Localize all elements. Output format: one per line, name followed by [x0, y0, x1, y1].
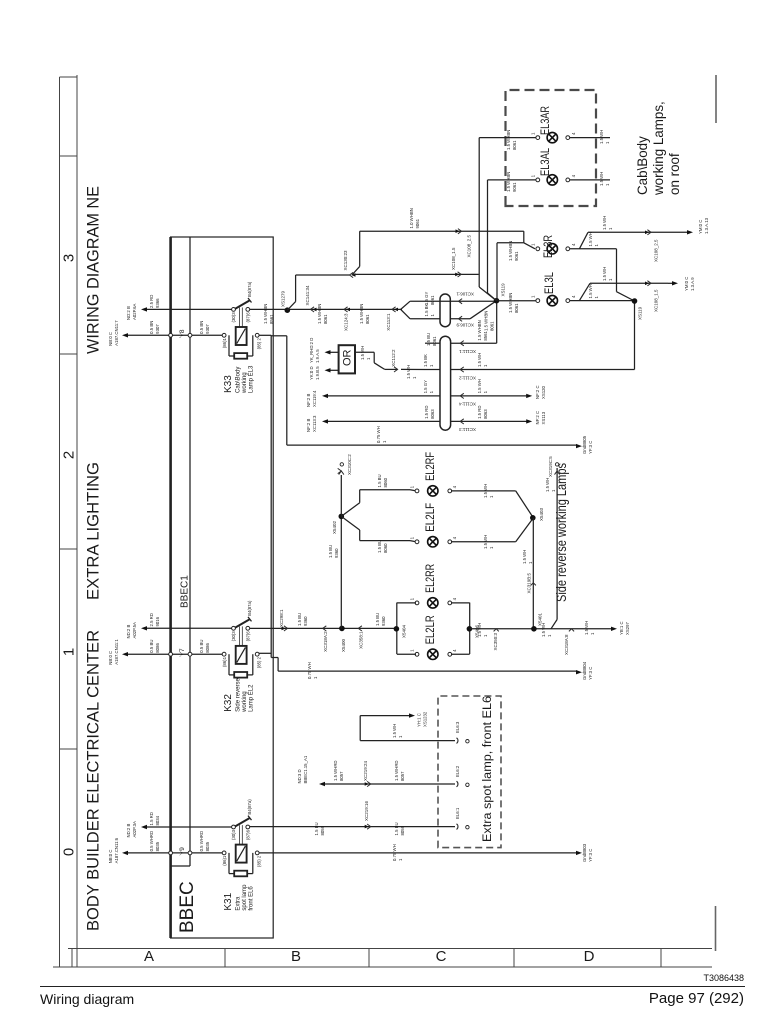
branch from XS1279 to XC130:23 and EL3AR feed: [287, 302, 295, 311]
svg-text:(86)1: (86)1: [222, 337, 227, 348]
svg-text:XC108_1.5: XC108_1.5: [451, 247, 456, 270]
svg-text:working Lamps,: working Lamps,: [651, 101, 666, 196]
svg-text:8061: 8061: [365, 314, 370, 324]
svg-text:4: 4: [571, 243, 576, 246]
svg-text:XC111:1: XC111:1: [459, 349, 476, 354]
EL3AR lamp circuit: [479, 137, 536, 139]
X5402 branch to EL2LF pin1: [341, 516, 359, 530]
svg-text:9360: 9360: [334, 548, 339, 558]
svg-text:YF:3 C: YF:3 C: [588, 441, 593, 454]
svg-text:9: 9: [179, 847, 186, 851]
svg-text:(85) 2: (85) 2: [257, 855, 262, 867]
svg-text:8061: 8061: [489, 321, 494, 331]
svg-text:OR: OR: [342, 349, 354, 366]
wire 0.75 WH to GndB804: [278, 670, 576, 672]
K31 pin85 wire 0.75 WH to GndB803: [259, 852, 576, 854]
svg-text:EL3AR: EL3AR: [538, 106, 552, 135]
splice X5406: [467, 626, 473, 632]
svg-text:1.5 WHRD: 1.5 WHRD: [333, 760, 338, 781]
relay K31 coil box: [236, 845, 247, 863]
svg-text:1.5 RD: 1.5 RD: [477, 406, 482, 419]
svg-text:8057: 8057: [339, 771, 344, 781]
svg-text:EL3L: EL3L: [542, 272, 556, 294]
svg-text:1: 1: [430, 314, 435, 317]
svg-text:Side reverse working Lamps: Side reverse working Lamps: [554, 463, 569, 602]
svg-text:NF:2 B: NF:2 B: [306, 418, 311, 432]
svg-text:1: 1: [398, 735, 403, 738]
svg-text:1.3.A.13: 1.3.A.13: [704, 217, 709, 234]
svg-text:XC108_1.5: XC108_1.5: [654, 289, 659, 312]
svg-text:XS1279: XS1279: [281, 290, 286, 307]
OR output to XC112:2: [355, 351, 374, 353]
svg-text:1: 1: [483, 364, 488, 367]
svg-text:1.5 BK: 1.5 BK: [424, 303, 429, 316]
svg-text:EL6:2: EL6:2: [455, 765, 460, 777]
svg-text:A187.CN11:1: A187.CN11:1: [114, 639, 119, 665]
svg-text:XC106:1: XC106:1: [456, 292, 474, 297]
svg-text:1.5 WH: 1.5 WH: [483, 484, 488, 498]
relay K32 switch contact 30-87a-87: [232, 626, 236, 630]
sheet frame: row-letter strip (left): [53, 966, 712, 968]
svg-text:B4(87a): B4(87a): [247, 600, 252, 616]
svg-text:1: 1: [410, 649, 415, 652]
svg-text:1.5 BU: 1.5 BU: [375, 613, 380, 626]
svg-text:8060: 8060: [383, 543, 388, 553]
svg-text:8057: 8057: [400, 771, 405, 781]
X5402 branch to EL2RF pin1: [341, 503, 359, 517]
svg-text:NB:0 C: NB:0 C: [108, 651, 113, 665]
svg-text:8061: 8061: [512, 140, 517, 150]
wire 1.5 WHRD 8057 with arrow ND:3 D BBEC1.15_A1 to EL6:2: [322, 783, 455, 785]
svg-text:EL2LR: EL2LR: [423, 615, 437, 644]
relay K31 pin (86)1: [222, 851, 226, 855]
svg-text:YK_RHD:2 D: YK_RHD:2 D: [309, 338, 314, 363]
doc number T3086438: [703, 973, 744, 983]
svg-text:WIRING DIAGRAM NE: WIRING DIAGRAM NE: [84, 186, 103, 354]
relay K33 switch contact 30-87a-87: [232, 308, 236, 312]
svg-text:1.5 WHBN: 1.5 WHBN: [508, 241, 513, 261]
svg-text:1.5 WHBN: 1.5 WHBN: [263, 304, 268, 324]
svg-text:8561: 8561: [483, 330, 488, 340]
svg-text:1.5 WH: 1.5 WH: [599, 130, 604, 144]
svg-text:0.5 BN: 0.5 BN: [199, 321, 204, 334]
svg-text:1: 1: [398, 858, 403, 861]
svg-text:YM:0 C: YM:0 C: [684, 277, 689, 291]
svg-text:EL2RR: EL2RR: [423, 564, 437, 593]
svg-text:C: C: [436, 948, 447, 965]
svg-text:Cab\Body: Cab\Body: [635, 136, 650, 195]
svg-text:1: 1: [605, 141, 610, 144]
svg-text:1.5 WH: 1.5 WH: [406, 365, 411, 379]
svg-text:EL3AL: EL3AL: [538, 148, 552, 176]
svg-text:9360: 9360: [381, 616, 386, 626]
svg-text:XC112:2: XC112:2: [391, 349, 396, 367]
svg-text:NB:0 C: NB:0 C: [108, 850, 113, 864]
svg-text:8059: 8059: [320, 825, 325, 835]
svg-text:4: 4: [571, 132, 576, 135]
OR logic box: [339, 345, 355, 373]
wire w4 1.5 RD 8063 through XC111:3 (NF:2B XC113:3 to NF:2C XS113): [325, 420, 440, 422]
svg-text:EL2RF: EL2RF: [423, 452, 437, 481]
svg-text:9061: 9061: [512, 182, 517, 192]
EL6:2 bullet terminal: [457, 781, 458, 787]
splice XS1279: [285, 307, 291, 313]
svg-text:8061: 8061: [432, 336, 437, 346]
svg-text:XC141:34: XC141:34: [305, 285, 310, 306]
svg-text:1.5 WH: 1.5 WH: [545, 478, 550, 492]
svg-text:Lamp EL2: Lamp EL2: [248, 684, 254, 712]
connector capsule XC106:1/XC106:9: [440, 294, 450, 327]
svg-text:Side reverse: Side reverse: [236, 678, 242, 712]
svg-text:1.5 WH: 1.5 WH: [392, 724, 397, 738]
svg-text:1.5 WHBN: 1.5 WHBN: [506, 130, 511, 150]
relay K33 pin (86)1: [222, 333, 226, 337]
connector XC113:1: [392, 307, 396, 312]
svg-text:1.5 WH: 1.5 WH: [602, 267, 607, 281]
svg-text:X5400: X5400: [341, 639, 346, 653]
svg-text:EL6:1: EL6:1: [455, 807, 460, 819]
svg-text:9061: 9061: [415, 218, 420, 228]
svg-text:0: 0: [61, 848, 78, 856]
svg-text:B: B: [291, 948, 301, 965]
svg-text:1.5 BU: 1.5 BU: [377, 474, 382, 487]
svg-text:(85) 2: (85) 2: [257, 656, 262, 668]
svg-text:0.5 BN: 0.5 BN: [149, 321, 154, 334]
relay K32 resistor loop: [228, 654, 230, 675]
svg-text:A02P.3A: A02P.3A: [132, 821, 137, 838]
svg-text:1.5 WH: 1.5 WH: [483, 535, 488, 549]
splice X5404: [394, 626, 400, 632]
BBEC terminal circles + pin 9 of BBEC1: [169, 851, 173, 855]
svg-text:2.5 RD: 2.5 RD: [149, 295, 154, 308]
svg-text:K32: K32: [223, 694, 234, 712]
svg-text:A02P.6A: A02P.6A: [132, 303, 137, 320]
svg-text:XC319B:5: XC319B:5: [527, 573, 532, 594]
svg-text:1.5 BU: 1.5 BU: [297, 613, 302, 626]
splice X5403: [530, 515, 536, 521]
svg-text:8061: 8061: [514, 303, 519, 313]
splice XS119 (right): [632, 298, 638, 304]
wire w2 to splice XS119 right: [634, 301, 636, 370]
svg-text:X5402: X5402: [332, 521, 337, 535]
svg-text:XC318A:8: XC318A:8: [564, 634, 569, 655]
svg-text:XC108_2.5: XC108_2.5: [654, 239, 659, 262]
svg-text:8059: 8059: [400, 825, 405, 835]
svg-text:1.5 WHBN: 1.5 WHBN: [477, 320, 482, 340]
svg-text:0.5 BU: 0.5 BU: [149, 640, 154, 653]
EL2RR/EL2LR parallel ring: [396, 603, 398, 654]
svg-text:1.5 WHBN: 1.5 WHBN: [506, 172, 511, 192]
svg-text:8035: 8035: [155, 841, 160, 851]
dashed enclosure: Extra spot lamp, front EL6: [438, 696, 501, 848]
svg-text:1.5 BU: 1.5 BU: [426, 333, 431, 346]
svg-text:1.5 WHBN: 1.5 WHBN: [484, 311, 489, 331]
svg-text:1.5 WH: 1.5 WH: [599, 172, 604, 186]
K33 output trunk 1.5 WHBN 8561: [250, 308, 403, 310]
relay K33 resistor loop: [228, 335, 230, 356]
svg-text:(87)6: (87)6: [246, 312, 251, 323]
svg-text:XS113: XS113: [541, 411, 546, 424]
svg-text:1: 1: [531, 174, 536, 177]
EL3R return into XS119 right: [570, 248, 617, 250]
svg-text:XC358:1: XC358:1: [359, 631, 364, 649]
svg-text:NF:2 C: NF:2 C: [535, 411, 540, 425]
svg-text:A02P.5A: A02P.5A: [132, 622, 137, 639]
svg-text:XC219:24: XC219:24: [363, 760, 368, 781]
svg-text:XC113:1: XC113:1: [386, 313, 391, 331]
OR input wire from YK:0 D 1.9.B.5: [327, 369, 339, 371]
svg-text:(86)1: (86)1: [222, 855, 227, 866]
connector capsule XC111:1/2/4/3: [440, 336, 451, 430]
svg-text:0.75 WH: 0.75 WH: [392, 844, 397, 861]
svg-text:Cab\Body: Cab\Body: [236, 367, 242, 393]
svg-text:7: 7: [179, 648, 186, 652]
EL3L lamp circuit: [497, 300, 537, 302]
svg-text:9366: 9366: [155, 298, 160, 308]
svg-text:1: 1: [61, 648, 78, 656]
svg-text:XC111:2: XC111:2: [459, 375, 476, 380]
coil ground rail from K32/K33 pin85 to GndB804: [259, 652, 272, 654]
svg-text:1.5 BK: 1.5 BK: [423, 354, 428, 367]
svg-text:8063: 8063: [483, 409, 488, 419]
relay K33 pin (85)2: [255, 333, 259, 337]
feed wires to roof lamps EL3AL/EL3AR: [478, 138, 480, 287]
svg-text:NB:0 C: NB:0 C: [108, 332, 113, 346]
svg-text:front EL6: front EL6: [248, 886, 254, 911]
svg-text:1: 1: [313, 676, 318, 679]
footer rule: [40, 986, 745, 987]
relay K31 coil-feed wire (pin 9): [125, 852, 224, 854]
svg-text:Extra: Extra: [236, 896, 242, 911]
svg-text:1.5 RD: 1.5 RD: [424, 406, 429, 419]
relay K31 switch wire with supply arrow: [144, 826, 234, 828]
relay K32 pin (85)2: [255, 652, 259, 656]
svg-text:3: 3: [61, 254, 78, 262]
svg-text:EL3R: EL3R: [541, 235, 555, 258]
svg-text:YM:0 C: YM:0 C: [698, 220, 703, 234]
svg-text:BBEC1: BBEC1: [180, 575, 191, 608]
BBEC electrical-center box: [171, 237, 274, 938]
svg-text:ND:3 D: ND:3 D: [297, 769, 302, 783]
svg-text:XC111:3: XC111:3: [459, 427, 476, 432]
svg-text:XC350:3: XC350:3: [493, 633, 498, 651]
svg-text:2.5 RD: 2.5 RD: [149, 613, 154, 626]
svg-text:0.75 WH: 0.75 WH: [376, 426, 381, 443]
bus to lamp feeds: X5400 to X5402 and XC310C:2: [340, 516, 342, 628]
relay K32 link to switch: [238, 626, 240, 646]
svg-text:1: 1: [608, 227, 613, 230]
svg-text:XC108_2.5: XC108_2.5: [467, 235, 472, 258]
connector XC141:34: [311, 307, 315, 312]
svg-text:on roof: on roof: [667, 153, 682, 195]
splice X5400: [339, 626, 345, 632]
svg-text:0.75 WH: 0.75 WH: [307, 662, 312, 679]
svg-text:9307: 9307: [155, 324, 160, 334]
svg-text:XS119: XS119: [501, 283, 506, 297]
svg-text:1: 1: [366, 357, 371, 360]
svg-text:1.5 WHBN: 1.5 WHBN: [508, 293, 513, 313]
svg-text:XC319C:5: XC319C:5: [548, 456, 553, 477]
svg-text:1.5 WH: 1.5 WH: [602, 216, 607, 230]
lamp EL2RF: [415, 489, 419, 493]
svg-text:B4(87a): B4(87a): [247, 281, 252, 297]
svg-text:BBEC: BBEC: [177, 881, 198, 933]
svg-text:1: 1: [590, 632, 595, 635]
svg-text:A187.CN11:6: A187.CN11:6: [114, 837, 119, 863]
wire L from XC130:23 down to roof-lamp feed: [352, 273, 479, 275]
svg-text:NF:2 B: NF:2 B: [306, 393, 311, 407]
svg-text:GndB803: GndB803: [582, 843, 587, 862]
svg-text:X5403: X5403: [539, 507, 544, 521]
footer text Wiring diagram: [40, 991, 134, 1007]
svg-text:1.5 WH: 1.5 WH: [584, 621, 589, 635]
relay K31 link to switch: [238, 825, 240, 845]
svg-text:A187.CN11:7: A187.CN11:7: [114, 320, 119, 346]
svg-text:XC298:1: XC298:1: [279, 609, 284, 627]
EL3R lamp circuit: [496, 243, 498, 301]
svg-text:(85) 2: (85) 2: [257, 337, 262, 349]
relay K31 resistor loop: [228, 853, 230, 874]
trunk fork at Y=400.7: [401, 301, 410, 309]
EL6:1 bullet terminal: [457, 824, 458, 830]
svg-text:EL6:3: EL6:3: [455, 721, 460, 733]
svg-text:1.5 WH: 1.5 WH: [477, 623, 482, 637]
svg-text:8063: 8063: [430, 409, 435, 419]
fork branch wire through XC106:9: [401, 309, 410, 318]
wire from XC112:2 into w2: [401, 368, 425, 370]
relay K33 coil box: [236, 327, 247, 345]
svg-text:XC106:9: XC106:9: [456, 323, 474, 328]
svg-text:1: 1: [410, 597, 415, 600]
wire T 1.0 WHBN 9061 down to EL3R: [360, 230, 524, 232]
relay K32 pin (86)1: [222, 652, 226, 656]
lamp EL2LR: [415, 652, 419, 656]
svg-text:XS119: XS119: [638, 306, 643, 320]
svg-text:1: 1: [531, 295, 536, 298]
svg-text:1: 1: [429, 364, 434, 367]
svg-text:1: 1: [483, 390, 488, 393]
splice X5401: [531, 626, 537, 632]
svg-text:1: 1: [605, 183, 610, 186]
svg-text:4: 4: [452, 485, 457, 488]
dashed enclosure Cab/Body working lamps on roof: [506, 90, 597, 206]
relay K31 pin (85)2: [255, 851, 259, 855]
svg-text:1: 1: [528, 561, 533, 564]
svg-text:YF:3 C: YF:3 C: [588, 849, 593, 862]
EL6:3 bullet terminal: [457, 738, 458, 744]
svg-text:1.9.A.5: 1.9.A.5: [315, 349, 320, 363]
svg-text:1: 1: [412, 376, 417, 379]
BBEC terminal circles + pin 7 of BBEC1: [169, 652, 173, 656]
svg-text:YH:1 C: YH:1 C: [417, 713, 422, 727]
svg-text:1.5 WHRD: 1.5 WHRD: [394, 760, 399, 781]
svg-text:EL2LF: EL2LF: [423, 503, 437, 532]
svg-text:XC119:4: XC119:4: [312, 390, 317, 407]
svg-text:1: 1: [429, 390, 434, 393]
ring output to X5401 and YB:1 C XS297: [470, 628, 611, 630]
svg-text:(30)3: (30)3: [231, 829, 236, 840]
svg-text:X5401: X5401: [538, 612, 543, 626]
svg-text:1: 1: [547, 634, 552, 637]
svg-text:4: 4: [452, 597, 457, 600]
EL3L return to XS119 right: [570, 300, 635, 302]
svg-text:XC318A:2: XC318A:2: [323, 631, 328, 652]
svg-text:1: 1: [531, 132, 536, 135]
svg-text:(86)1: (86)1: [222, 656, 227, 667]
svg-text:8: 8: [179, 329, 186, 333]
EL3L branch to XC108_1.5: [579, 283, 590, 300]
svg-text:1.5 RD: 1.5 RD: [149, 812, 154, 825]
svg-text:1: 1: [608, 278, 613, 281]
connector XC124:3: [344, 307, 348, 312]
svg-text:1.5 BU: 1.5 BU: [394, 822, 399, 835]
svg-text:BODY BUILDER ELECTRICAL CENTER: BODY BUILDER ELECTRICAL CENTER: [84, 630, 103, 931]
svg-text:4: 4: [571, 295, 576, 298]
svg-text:1.5 WH: 1.5 WH: [522, 550, 527, 564]
svg-text:1.5 WH: 1.5 WH: [477, 379, 482, 393]
svg-text:ND:2 B: ND:2 B: [126, 824, 131, 838]
OR input wire from YK_RHD:2 D 1.9.A.5: [327, 351, 339, 353]
svg-text:XC124:3: XC124:3: [344, 313, 349, 331]
svg-text:9061: 9061: [514, 251, 519, 261]
K31 output wire 1.5 BU 8059 to EL6:1: [250, 826, 456, 828]
svg-text:1.5 WH: 1.5 WH: [360, 346, 365, 360]
svg-text:XS297: XS297: [625, 621, 630, 635]
svg-text:1.3.A.9: 1.3.A.9: [690, 277, 695, 291]
svg-text:0.5 BU: 0.5 BU: [199, 640, 204, 653]
svg-text:8086: 8086: [155, 643, 160, 653]
svg-text:9360: 9360: [303, 616, 308, 626]
svg-text:1: 1: [489, 546, 494, 549]
relay K33 link to switch: [238, 308, 240, 328]
svg-text:8035: 8035: [205, 841, 210, 851]
relay K32 coil box: [236, 646, 247, 664]
svg-text:K33: K33: [223, 375, 234, 393]
svg-text:1: 1: [483, 634, 488, 637]
svg-text:XS120: XS120: [541, 385, 546, 399]
svg-text:GndB805: GndB805: [582, 435, 587, 454]
stub XC319C:5 joining return bus: [556, 468, 558, 620]
svg-text:1.9.B.5: 1.9.B.5: [315, 366, 320, 380]
svg-text:Lamp EL3: Lamp EL3: [248, 365, 254, 393]
lamp EL2LF: [415, 540, 419, 544]
svg-text:working: working: [242, 372, 248, 394]
svg-text:0.5 WHRD: 0.5 WHRD: [199, 831, 204, 852]
BBEC terminal circles + pin 8 of BBEC1: [169, 333, 173, 337]
svg-text:1.5 WH: 1.5 WH: [477, 353, 482, 367]
svg-text:B4(87a): B4(87a): [247, 799, 252, 815]
wire to YM:0 C 1.3.A.9 arrow: [668, 282, 672, 284]
relay K33 switch wire with supply arrow: [144, 308, 234, 310]
svg-text:BBEC1.15_A1: BBEC1.15_A1: [303, 755, 308, 783]
svg-text:9016: 9016: [155, 616, 160, 626]
svg-text:X5404: X5404: [402, 624, 407, 638]
svg-text:8034: 8034: [155, 815, 160, 825]
svg-text:D: D: [584, 948, 595, 965]
svg-text:XS1232: XS1232: [422, 711, 427, 727]
svg-text:1: 1: [594, 244, 599, 247]
svg-text:1.5 WH: 1.5 WH: [588, 232, 593, 246]
wire w2 1.5 WH through XC111:2: [425, 369, 440, 371]
svg-text:8060: 8060: [383, 477, 388, 487]
wire w1 1.5 BU 8061 through XC111:1 to XS119: [425, 342, 440, 344]
wire 1.5 WH to EL6:3 and arrow YH:1 C XS1232: [360, 740, 455, 742]
svg-text:1: 1: [410, 536, 415, 539]
svg-text:8086: 8086: [205, 643, 210, 653]
svg-text:YF:3 C: YF:3 C: [588, 667, 593, 680]
K32 output wire 1.5 BU 9360: [250, 627, 397, 629]
svg-text:GndB804: GndB804: [582, 661, 587, 680]
